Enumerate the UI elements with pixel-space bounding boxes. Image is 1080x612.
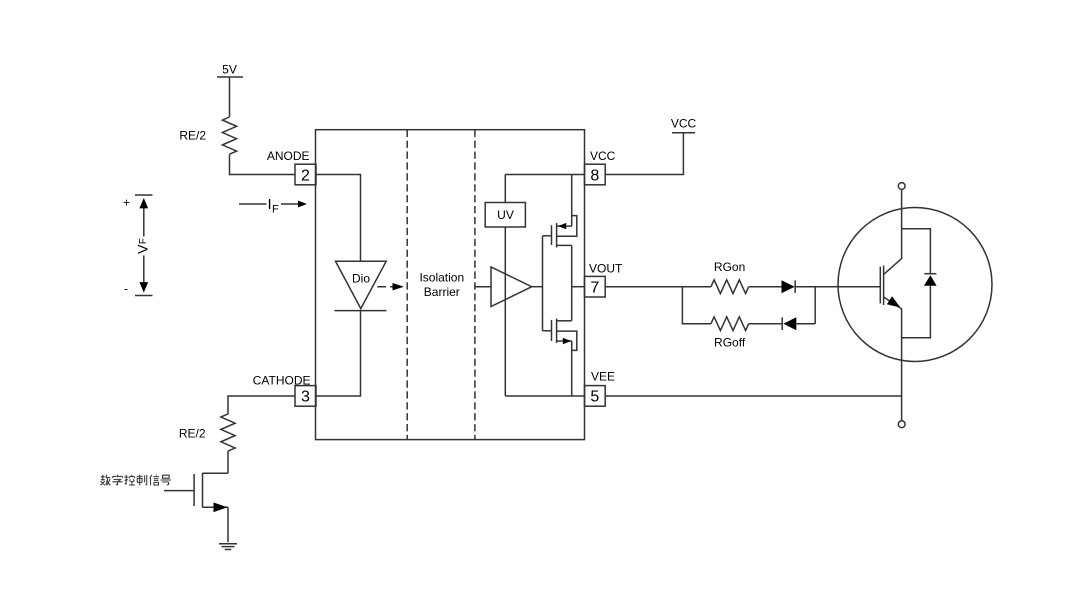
isolation barrier dashed line right (474, 130, 476, 440)
wire amplifier output to gates (532, 236, 552, 331)
NMOS lower Q-low (552, 319, 577, 351)
resistor RE/2 lower (179, 414, 235, 451)
svg-text:Isolation: Isolation (419, 270, 464, 284)
IC boundary (316, 130, 585, 440)
svg-text:RGon: RGon (714, 260, 745, 274)
freewheel diode (902, 229, 937, 338)
svg-text:VCC: VCC (590, 149, 616, 163)
wire pin 3 to RE/2 lower (228, 396, 295, 414)
wire NMOS drain to VOUT node (571, 287, 573, 321)
svg-text:F: F (138, 238, 149, 244)
label Isolation Barrier (419, 270, 464, 299)
wire VCC rail to PMOS source (571, 175, 573, 227)
wire LED cathode to pin 3 (316, 311, 361, 396)
pin 7 (585, 276, 606, 297)
svg-text:UV: UV (497, 208, 514, 222)
svg-text:3: 3 (301, 389, 310, 406)
svg-text:5: 5 (590, 389, 599, 406)
wire pin 8 to VCC supply (605, 133, 683, 175)
LED Dio (335, 261, 387, 310)
svg-text:RE/2: RE/2 (179, 427, 206, 441)
wire diode D2 to junction (796, 323, 816, 325)
svg-text:V: V (135, 244, 151, 254)
5V supply terminal (217, 63, 243, 78)
wire pin 2 to LED anode (316, 175, 361, 262)
VCC supply terminal (671, 117, 697, 133)
pin 5 (585, 386, 606, 407)
dashed optical arrow (377, 283, 404, 290)
transistor Q2 (164, 473, 228, 512)
svg-text:VCC: VCC (671, 117, 697, 131)
pin 2 (295, 164, 316, 185)
svg-text:Dio: Dio (352, 272, 370, 286)
wire pin 5 to IGBT emitter (605, 395, 901, 397)
wire diode D1 to IGBT gate (795, 286, 880, 288)
resistor RE/2 upper (179, 117, 236, 154)
annotation VF (123, 195, 153, 296)
wire RGoff to diode D2 (749, 323, 783, 325)
internal VCC rail (505, 174, 584, 176)
wire 5V to RE/2 (229, 77, 231, 117)
wire Q2 source to ground (227, 507, 229, 542)
svg-text:7: 7 (590, 279, 599, 296)
svg-text:RGoff: RGoff (714, 335, 746, 349)
UV detector (485, 203, 525, 228)
label digital control signal 数字控制信号 (101, 475, 171, 486)
pin 8 (585, 164, 606, 185)
svg-text:+: + (123, 196, 130, 210)
svg-text:8: 8 (590, 167, 599, 184)
isolation barrier dashed line left (406, 130, 408, 440)
wire pin 7 to gate resistor network (605, 286, 682, 288)
svg-text:2: 2 (301, 167, 310, 184)
svg-text:5V: 5V (222, 63, 237, 77)
IGBT Q1 (880, 189, 901, 420)
collector terminal (898, 183, 905, 190)
internal supply drop line (504, 175, 506, 397)
pin 3 (295, 386, 316, 407)
internal VEE rail (505, 395, 584, 397)
wire RGon to diode D1 (749, 286, 783, 288)
PMOS upper Q-high (552, 216, 577, 248)
current arrow IF (239, 196, 307, 216)
svg-text:ANODE: ANODE (267, 149, 310, 163)
svg-text:Barrier: Barrier (424, 285, 460, 299)
amplifier (491, 267, 532, 307)
wire VOUT node to pin 7 (572, 286, 585, 288)
wire branch down to RGoff path (682, 287, 711, 324)
svg-text:-: - (124, 282, 128, 296)
svg-text:F: F (272, 204, 279, 216)
diode D1 (782, 280, 796, 293)
IGBT module circle (838, 208, 992, 362)
wire barrier to amplifier input (475, 286, 491, 288)
wire PMOS drain to VOUT node (571, 245, 573, 286)
wire RE/2 to transistor Q2 (227, 451, 229, 473)
svg-text:VOUT: VOUT (589, 261, 623, 275)
resistor RGoff (711, 317, 749, 350)
emitter terminal (898, 421, 905, 428)
svg-text:RE/2: RE/2 (179, 129, 206, 143)
wire junction to RGon (682, 286, 711, 288)
svg-text:VEE: VEE (591, 370, 615, 384)
diode D2 (782, 317, 796, 330)
wire RGoff junction up (814, 287, 816, 324)
resistor RGon (711, 260, 749, 294)
ground (219, 544, 237, 550)
wire NMOS source to VEE rail (571, 341, 573, 396)
wire RE/2 to pin 2 (230, 154, 296, 174)
